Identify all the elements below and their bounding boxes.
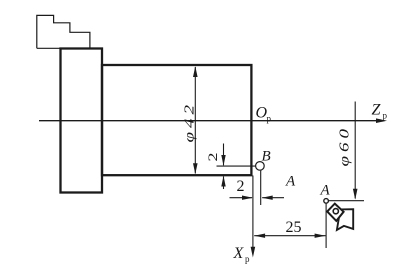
A extension line down [325, 204, 327, 248]
B extension line left [217, 165, 256, 167]
tool tip horizontal line [329, 200, 365, 202]
tool insert diamond [327, 204, 343, 221]
B extension line down [260, 171, 262, 205]
dim 2 horizontal left segment [230, 197, 253, 199]
dim 2 vertical line lower [223, 177, 225, 190]
svg-text:φ42: φ42 [181, 101, 196, 142]
X axis arrowhead [251, 247, 256, 258]
X axis line [252, 176, 254, 250]
svg-text:B: B [262, 149, 271, 165]
chuck jaw outline [37, 15, 90, 48]
workpiece [102, 65, 251, 175]
dim 25 left arrowhead [254, 234, 265, 238]
point B circle [256, 162, 265, 171]
dim 2 horizontal right-pointing arrowhead [242, 196, 253, 200]
dim 2 vertical lower arrowhead [221, 176, 225, 187]
phi60 arrowhead [353, 189, 358, 200]
chuck body [61, 49, 103, 193]
dim 2 vertical line upper [223, 144, 225, 166]
svg-text:X: X [233, 245, 245, 262]
dim 2 vertical upper arrowhead [221, 155, 225, 166]
dim 25 line [254, 235, 325, 237]
point A ring [324, 199, 329, 204]
svg-text:2: 2 [237, 178, 245, 195]
svg-text:A: A [285, 174, 296, 190]
phi60 extension line [354, 102, 356, 199]
svg-text:φ60: φ60 [337, 125, 352, 166]
svg-text:25: 25 [286, 219, 302, 236]
insert ring [333, 209, 338, 214]
dimension phi42 line [194, 67, 196, 174]
dim 25 right arrowhead [315, 234, 326, 238]
svg-text:p: p [245, 254, 250, 264]
svg-text:2: 2 [206, 153, 220, 162]
svg-text:p: p [267, 114, 272, 124]
dim 2 horizontal left-pointing arrowhead [262, 196, 273, 200]
centerline / Z axis [39, 120, 379, 122]
phi42 top arrowhead [193, 66, 198, 77]
phi42 bottom arrowhead [193, 163, 198, 174]
tool holder flag [337, 209, 353, 230]
dim 2 horizontal right segment [262, 197, 284, 199]
svg-text:Z: Z [372, 102, 382, 119]
Z axis arrowhead [376, 118, 387, 123]
svg-text:A: A [320, 183, 331, 199]
svg-text:p: p [383, 111, 388, 121]
